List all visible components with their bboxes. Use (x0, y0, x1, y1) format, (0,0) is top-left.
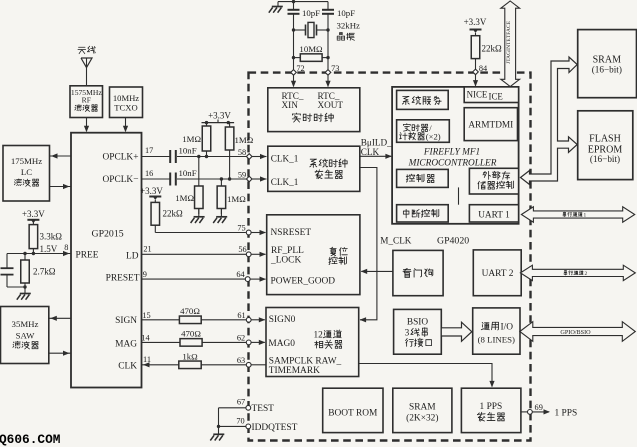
wire 63 to SAMPCLK (251, 364, 266, 366)
ground (crystal) (277, 2, 279, 7)
svg-text:470Ω: 470Ω (180, 306, 200, 316)
wire 58 to CLK_1 (252, 156, 267, 158)
svg-text:FIREFLY MF1: FIREFLY MF1 (423, 148, 480, 158)
block 定时器/计数器(×2) (397, 120, 450, 143)
wire 64 to POWER_GOOD (250, 278, 265, 280)
pin 58 marker (246, 154, 252, 160)
wire SAMPCLK to 1PPS generator (359, 364, 492, 387)
GP4020 dashed boundary (249, 73, 531, 441)
wire SIGN pin 15 (142, 319, 180, 321)
svg-text:61: 61 (237, 311, 245, 320)
JTAG interface double arrow (501, 1, 520, 87)
svg-text:1.5V: 1.5V (40, 244, 58, 254)
svg-text:PRESET: PRESET (106, 273, 140, 283)
svg-text:62: 62 (237, 333, 245, 342)
svg-text:75: 75 (237, 224, 245, 233)
wire 61 to SIGN0 (251, 319, 265, 321)
svg-text:8: 8 (64, 243, 68, 252)
wire TCXO to GP2015 (125, 118, 127, 132)
svg-text:11: 11 (143, 355, 151, 364)
block 控制器 (397, 169, 449, 187)
block 35MHz SAW filter (1, 307, 49, 364)
resistor 470Ω (MAG) (180, 339, 202, 347)
block 1575MHz RF filter (70, 86, 103, 118)
pin 72 marker (291, 70, 297, 76)
resistor 22kΩ (NSRESET) (154, 200, 156, 202)
pin 70 marker (246, 424, 251, 429)
wire 56 to RF_PLL_LOCK (251, 253, 265, 255)
svg-text:+3.3V: +3.3V (208, 110, 231, 120)
memory bus (external memory control to SRAM/FLASH) (521, 57, 578, 185)
svg-text:175MHz: 175MHz (11, 156, 42, 166)
block 1 PPS 发生器 (461, 388, 521, 432)
resistor 1MΩ pull-up left (206, 123, 208, 126)
svg-text:LC: LC (21, 167, 32, 177)
power +3.3V (bias divider) (27, 219, 39, 221)
svg-text:70: 70 (236, 417, 244, 426)
resistor 3.3kΩ (32, 222, 34, 225)
wire 73 to RTC_XOUT (327, 75, 329, 86)
pin 63 marker (246, 362, 251, 367)
wire LD pin 21 (142, 253, 247, 255)
block UART 1 (469, 205, 518, 222)
pin 61 marker (246, 317, 251, 322)
ground (pull-down right) (220, 209, 222, 217)
svg-text:I/O: I/O (501, 322, 514, 332)
wire TEST pin 67 (219, 407, 246, 409)
svg-text:IDDQTEST: IDDQTEST (252, 423, 298, 433)
block FLASH EPROM (16-bit) (578, 111, 633, 180)
svg-text:SIGN: SIGN (115, 316, 137, 326)
wire LC filter to GP2015 (50, 186, 72, 188)
junction + ground (divider) (23, 285, 26, 288)
svg-text:CLK_1: CLK_1 (271, 177, 299, 187)
ground (TEST) (218, 426, 220, 434)
block 系统服务 (397, 90, 449, 109)
svg-text:9: 9 (143, 270, 147, 279)
svg-text:GP4020: GP4020 (437, 236, 469, 247)
svg-text:15: 15 (142, 311, 150, 320)
resistor 2.7kΩ (24, 254, 26, 261)
wire to pin 84 (475, 59, 477, 70)
svg-text:(×2): (×2) (426, 131, 441, 141)
block ARMTDMI (464, 108, 517, 141)
svg-text:M_CLK: M_CLK (380, 236, 412, 246)
wire to pin 61 (201, 319, 246, 321)
svg-text:TEST: TEST (252, 404, 275, 414)
block 通用I/O (8 LINES) (473, 308, 520, 354)
block SRAM (16-bit) (578, 30, 637, 98)
svg-text:1MΩ: 1MΩ (235, 135, 254, 145)
pin 59 marker (246, 176, 252, 182)
svg-text:XIN: XIN (282, 100, 299, 110)
svg-text:1MΩ: 1MΩ (182, 134, 201, 144)
svg-text:XOUT: XOUT (318, 100, 344, 110)
svg-text:73: 73 (331, 64, 339, 73)
hollow arrow BSIO to 通用I/O (441, 322, 472, 341)
svg-text:SRAM: SRAM (409, 402, 436, 412)
block FIREFLY MF1 microcontroller (392, 87, 518, 224)
capacitor 10nF (OPCLK-) (169, 173, 171, 186)
serial channel 1 double arrow (521, 207, 634, 222)
wire 62 to MAG0 (251, 341, 265, 343)
svg-text:69: 69 (535, 403, 543, 412)
wire PREE pin 8 (7, 253, 71, 255)
capacitor 10nF (OPCLK+) (169, 150, 171, 163)
svg-text:470Ω: 470Ω (181, 329, 201, 339)
svg-text:UART 1: UART 1 (478, 210, 510, 220)
svg-text:+3.3V: +3.3V (464, 17, 487, 27)
svg-text:17: 17 (145, 146, 153, 155)
svg-text:1 PPS: 1 PPS (555, 408, 578, 418)
svg-text:10MHz: 10MHz (113, 93, 139, 103)
antenna symbol (81, 58, 92, 68)
wire M_CLK (360, 168, 377, 320)
wire NSRESET pin 75 (154, 225, 156, 232)
pin 56 marker (246, 252, 251, 257)
block 12通道相关器 (266, 308, 359, 377)
wire crystal top rail (278, 1, 328, 3)
svg-text:FLASH: FLASH (589, 134, 621, 145)
wire GP2015 to LC filter (50, 155, 72, 157)
capacitor 10pF left (293, 2, 295, 10)
svg-text:OPCLK−: OPCLK− (102, 175, 138, 185)
svg-text:58: 58 (238, 148, 246, 157)
svg-text:10pF: 10pF (337, 8, 355, 18)
wire GP2015 to SAW (49, 317, 71, 319)
svg-text:64: 64 (236, 270, 245, 279)
svg-text:BOOT ROM: BOOT ROM (328, 408, 378, 418)
svg-text:ARMTDMI: ARMTDMI (468, 121, 513, 131)
wire watchdog to reset control (361, 270, 393, 272)
block 复位控制 (267, 215, 360, 295)
svg-text:67: 67 (237, 397, 245, 406)
svg-text:22kΩ: 22kΩ (163, 209, 184, 219)
svg-text:63: 63 (237, 356, 245, 365)
svg-text:PREE: PREE (76, 251, 99, 261)
svg-text:SAW: SAW (16, 331, 36, 341)
svg-text:GPIO/BSIO: GPIO/BSIO (560, 329, 591, 336)
wire BμILD_CLK to MCU (360, 155, 392, 157)
svg-text:UART 2: UART 2 (482, 269, 514, 279)
wire PRESET pin 9 (142, 278, 246, 280)
svg-text:1 PPS: 1 PPS (480, 402, 503, 412)
pin 84 marker (473, 69, 479, 75)
wire to pin 62 (202, 341, 246, 343)
wire OPCLK+ pin 17 (142, 156, 171, 158)
capacitor (PREE filter) (1, 267, 14, 269)
svg-text:NICE: NICE (467, 89, 488, 99)
svg-text:10nF: 10nF (179, 146, 197, 156)
svg-text:BSIO: BSIO (407, 318, 428, 328)
block 中断控制 (397, 205, 449, 222)
svg-text:+3.3V: +3.3V (140, 186, 163, 196)
pin 75 marker (246, 230, 251, 235)
svg-text:(16−bit): (16−bit) (592, 64, 622, 74)
svg-text:ICE: ICE (489, 92, 503, 102)
svg-text:SAMPCLK RAW_: SAMPCLK RAW_ (269, 356, 342, 366)
resistor 1MΩ pull-down right (220, 179, 222, 186)
wire to pin 72 (293, 58, 295, 70)
svg-text:72: 72 (296, 64, 304, 73)
svg-text:OPCLK+: OPCLK+ (102, 153, 138, 163)
resistor 1kΩ (CLK) (179, 361, 201, 369)
pin 73 marker (325, 70, 331, 76)
wire crystal right leg (327, 30, 329, 58)
wire 84 to NICE (475, 75, 477, 86)
svg-text:1: 1 (584, 212, 587, 218)
wire crystal left leg (293, 30, 295, 58)
antenna label 天线 (79, 46, 86, 48)
wire MAG pin 14 (142, 341, 181, 343)
resistor 22kΩ (pin 84) (475, 33, 477, 36)
svg-text:TCXO: TCXO (114, 103, 137, 113)
block 175MHz LC filter (3, 146, 50, 202)
pin 69 marker (528, 410, 533, 415)
svg-text:84: 84 (479, 64, 488, 73)
wire SAW to GP2015 (49, 352, 71, 354)
svg-text:LD: LD (126, 251, 139, 261)
resistor 1MΩ pull-down left (198, 157, 200, 187)
svg-text:BμILD_: BμILD_ (361, 137, 392, 147)
svg-text:1MΩ: 1MΩ (227, 194, 246, 204)
ground (pull-down left) (198, 209, 200, 217)
svg-text:MAG: MAG (115, 339, 137, 349)
svg-text:CLK: CLK (118, 361, 137, 371)
svg-text:59: 59 (238, 170, 246, 179)
svg-text:21: 21 (143, 244, 151, 253)
resistor 470Ω (SIGN) (179, 316, 201, 324)
svg-text:(2K×32): (2K×32) (406, 413, 438, 424)
block NICE ICE (464, 87, 518, 103)
svg-text:22kΩ: 22kΩ (482, 44, 503, 54)
block 10MHz TCXO (110, 87, 143, 118)
wire 69 to 1 PPS label (532, 411, 549, 413)
svg-text:POWER_GOOD: POWER_GOOD (271, 276, 336, 286)
svg-text:3.3kΩ: 3.3kΩ (40, 232, 63, 242)
svg-text:1kΩ: 1kΩ (182, 351, 198, 361)
capacitor 10pF right (327, 2, 329, 10)
resistor 10MΩ (294, 57, 301, 59)
crystal X1 32kHz (292, 28, 295, 31)
block GP2015 (71, 133, 142, 388)
wire OPCLK- pin 16 (142, 178, 171, 180)
block RTC 实时时钟 (268, 88, 360, 132)
wire 75 to NSRESET (251, 232, 265, 234)
svg-text:MICROCONTROLLER: MICROCONTROLLER (408, 158, 497, 168)
block 系统时钟发生器 (268, 146, 360, 191)
wire CLK pin 11 (142, 364, 179, 366)
svg-text:JTAGINTETFACE: JTAGINTETFACE (506, 20, 512, 64)
GPIO/BSIO double arrow (520, 322, 636, 342)
wire antenna filter to GP2015 (86, 118, 88, 132)
block 外部存储器控制 (469, 168, 518, 194)
svg-text:35MHz: 35MHz (12, 319, 39, 329)
svg-text:CLK: CLK (361, 147, 380, 157)
serial channel 2 double arrow (520, 265, 635, 280)
svg-text:GP2015: GP2015 (92, 229, 124, 240)
svg-text:12: 12 (314, 330, 324, 340)
block 看门狗 (393, 250, 443, 295)
svg-text:TIMEMARK: TIMEMARK (269, 366, 320, 376)
svg-text:RF: RF (82, 96, 91, 105)
pin 67 marker (246, 405, 251, 410)
svg-text:Q606.COM: Q606.COM (0, 432, 61, 447)
svg-text:MAG0: MAG0 (268, 339, 295, 349)
svg-text:+3.3V: +3.3V (22, 209, 45, 219)
svg-text:NSRESET: NSRESET (271, 228, 312, 238)
svg-text:10nF: 10nF (179, 168, 197, 178)
block BOOT ROM (323, 388, 383, 432)
svg-text:10pF: 10pF (302, 8, 320, 18)
svg-text:3: 3 (405, 328, 410, 338)
wire 1PPS output pin 69 (521, 411, 528, 413)
block BSIO 3线串行接口 (394, 309, 442, 354)
pin 62 marker (246, 340, 251, 345)
svg-text:2.7kΩ: 2.7kΩ (33, 267, 56, 277)
wire 72 to RTC_XIN (293, 75, 295, 86)
svg-text:14: 14 (141, 333, 150, 342)
wire to pin 63 (201, 364, 246, 366)
svg-text:SIGN0: SIGN0 (269, 315, 296, 325)
wire IDDQTEST pin 70 (218, 408, 220, 427)
svg-text:(8 LINES): (8 LINES) (478, 335, 515, 345)
svg-text:16: 16 (145, 169, 153, 178)
svg-text:56: 56 (238, 245, 246, 254)
wire to pin 73 (327, 58, 329, 70)
svg-text:_LOCK: _LOCK (270, 255, 301, 265)
pin 64 marker (245, 277, 250, 282)
svg-text:2: 2 (585, 271, 588, 277)
block UART 2 (473, 250, 521, 296)
divider line (MCU internal) (458, 187, 460, 204)
svg-text:1MΩ: 1MΩ (175, 193, 194, 203)
svg-text:(16−bit): (16−bit) (590, 154, 620, 164)
svg-text:CLK_1: CLK_1 (271, 154, 299, 164)
block SRAM (2K×32) (393, 388, 452, 432)
svg-text:32kHz: 32kHz (337, 21, 361, 31)
wire 59 to CLK_1 (252, 178, 267, 180)
svg-text:10MΩ: 10MΩ (299, 44, 323, 54)
wire cap branch (6, 254, 8, 269)
resistor 1MΩ pull-up right (229, 123, 231, 127)
